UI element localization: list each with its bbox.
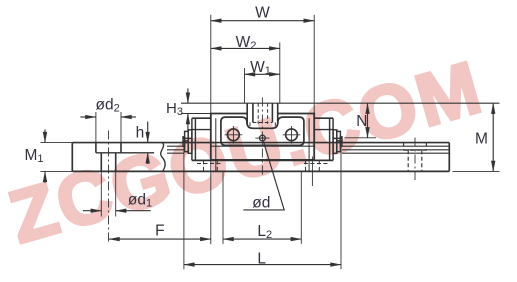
watermark ZCGOU.COM xyxy=(1,45,492,259)
dim W1 xyxy=(245,73,280,75)
dim F xyxy=(109,238,211,240)
counterbore walls left rail xyxy=(96,143,121,153)
rail bottom line xyxy=(72,170,449,172)
svg-text:N: N xyxy=(356,113,367,130)
side block top xyxy=(192,117,333,119)
block front bottom xyxy=(211,159,314,161)
hole centerline xyxy=(108,131,110,245)
dim phi-d1 xyxy=(83,210,101,212)
seal top edge left xyxy=(192,129,211,131)
dim M1 xyxy=(44,129,46,142)
dim H3 xyxy=(187,89,189,104)
dim W2 xyxy=(211,47,280,49)
grease nipple left xyxy=(183,130,192,154)
rail groove line 2 xyxy=(167,149,449,151)
block front outline xyxy=(211,114,314,160)
center line vertical xyxy=(261,98,263,176)
rail groove line 3 xyxy=(167,152,449,154)
hole centerline under block left xyxy=(210,161,212,244)
svg-text:F: F xyxy=(155,223,164,240)
hidden hole under block left xyxy=(204,160,218,171)
rail front chamfer lines xyxy=(247,103,278,123)
dim N xyxy=(367,103,369,138)
rail side top line xyxy=(72,142,449,144)
wire rail top extension long line xyxy=(181,102,500,104)
hidden seal bottom edges xyxy=(197,163,328,165)
grease nipple right xyxy=(333,130,342,154)
dim L2 xyxy=(223,238,301,240)
hole centerline under block right xyxy=(311,157,313,187)
rail front counterbore lines xyxy=(253,103,273,122)
svg-text:ZCGOU.COM: ZCGOU.COM xyxy=(1,45,492,259)
dim M xyxy=(492,103,494,171)
svg-text:ød2: ød2 xyxy=(95,97,119,115)
dim phi-d2 xyxy=(80,116,96,118)
svg-text:W2: W2 xyxy=(236,34,257,52)
rail hidden thread lines xyxy=(258,103,267,124)
dim phi-d leader xyxy=(243,141,284,210)
bolt circle left xyxy=(228,129,240,141)
svg-text:W1: W1 xyxy=(250,59,271,77)
bolt circle right xyxy=(286,129,298,141)
block inner verticals xyxy=(216,118,309,171)
svg-text:W: W xyxy=(255,5,270,22)
hidden hole right rail through xyxy=(408,150,422,171)
hidden hole right rail counterbore xyxy=(404,143,427,151)
svg-text:M: M xyxy=(475,131,488,148)
hidden hole under block right xyxy=(306,160,320,171)
dim W xyxy=(211,20,314,22)
svg-text:M1: M1 xyxy=(24,147,43,165)
center small circle xyxy=(260,135,266,141)
rail break curve xyxy=(161,143,165,172)
through hole walls xyxy=(101,153,115,172)
rail hidden bottom xyxy=(253,122,273,124)
svg-text:L: L xyxy=(257,250,266,267)
seal top edge right xyxy=(314,129,333,131)
dim h xyxy=(147,122,149,143)
rail left end xyxy=(71,143,73,172)
rail groove line 1 xyxy=(167,145,449,147)
svg-text:H3: H3 xyxy=(166,100,183,118)
svg-text:h: h xyxy=(136,124,145,141)
end seal left xyxy=(192,118,196,160)
end seal right xyxy=(330,118,334,160)
rail right end xyxy=(448,143,450,172)
dim L xyxy=(184,264,341,266)
right hole centerline xyxy=(414,138,416,181)
rail hidden lower dashes xyxy=(250,123,275,129)
svg-text:ød: ød xyxy=(252,194,270,211)
side block bottom xyxy=(192,159,333,161)
counterbore bottom xyxy=(96,152,154,154)
svg-text:L2: L2 xyxy=(257,223,272,241)
block inner contour xyxy=(221,117,304,145)
